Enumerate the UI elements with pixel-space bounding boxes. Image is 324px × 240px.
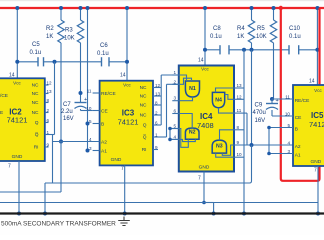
capacitor C6 (101, 57, 103, 66)
svg-text:+: + (276, 98, 279, 104)
wire decoupling line left (17, 61, 38, 63)
node rail junction B line (86, 6, 90, 10)
wire to IC3 A2 (53, 141, 100, 143)
svg-text:2: 2 (174, 79, 177, 84)
svg-text:/CE: /CE (0, 93, 8, 99)
node IC2 Vcc tap (15, 60, 19, 64)
node black bus IC5 (316, 212, 320, 216)
svg-text:1K: 1K (237, 34, 244, 40)
svg-text:11: 11 (237, 108, 242, 113)
wire Qbar tap down to IC2 pin1 (54, 62, 56, 135)
op-amp IC3 74121 monostable (86, 73, 166, 173)
node black bus jog (212, 212, 216, 216)
svg-text:7: 7 (198, 176, 201, 182)
node red branch rail junction (279, 6, 283, 10)
resistor R4 (248, 20, 254, 43)
svg-text:12: 12 (47, 80, 53, 85)
svg-text:74121: 74121 (7, 116, 28, 125)
svg-text:1K: 1K (46, 34, 53, 40)
svg-text:IC3: IC3 (122, 109, 135, 118)
wire C7 to IC3 pin10 (80, 109, 82, 111)
node R4 pin9 A2 junction (250, 143, 254, 147)
svg-text:B: B (295, 127, 298, 133)
svg-text:16V: 16V (63, 116, 74, 122)
svg-text:NC: NC (32, 83, 39, 89)
wire IC5 pin11 stub (272, 98, 293, 100)
svg-text:4: 4 (287, 140, 290, 145)
gate N1 (185, 81, 199, 97)
node IC3 B pin tap (86, 122, 90, 126)
ground bus (transformer secondary) (0, 212, 324, 214)
wire C9 to IC5 pin10 (271, 110, 273, 116)
svg-text:N2: N2 (189, 130, 196, 136)
svg-text:Q̅: Q̅ (35, 131, 39, 138)
svg-text:C5: C5 (32, 42, 40, 48)
svg-text:IC5: IC5 (311, 111, 324, 120)
wire lower horizontal bus (0, 202, 318, 204)
wire R4 to junction (251, 50, 253, 145)
ground symbol (118, 217, 130, 226)
svg-text:A1: A1 (101, 149, 107, 155)
svg-text:1: 1 (174, 70, 177, 75)
resistor R5 (270, 20, 276, 43)
wire C8 line left (205, 49, 220, 51)
svg-text:74121: 74121 (118, 118, 139, 127)
svg-text:6: 6 (47, 118, 50, 123)
svg-text:5: 5 (174, 124, 177, 129)
node R2 to IC3 A2 junction (59, 140, 63, 144)
svg-text:A1: A1 (295, 153, 301, 159)
svg-text:RI: RI (142, 147, 147, 153)
gate N4 (212, 92, 224, 107)
wire IC5 GND drop (317, 166, 319, 214)
wire left return bus (0, 191, 61, 193)
svg-text:Q̅: Q̅ (143, 134, 147, 141)
svg-text:3: 3 (174, 96, 177, 101)
svg-text:Q: Q (143, 123, 147, 129)
svg-text:9: 9 (237, 140, 240, 145)
capacitor C7 2.2u electrolytic (75, 102, 87, 104)
svg-text:12: 12 (155, 83, 161, 88)
svg-text:Q: Q (35, 120, 39, 126)
svg-text:+: + (84, 97, 87, 103)
wire IC4 pin9 to IC5 A2 (234, 144, 293, 146)
wire IC2 Vcc feed (16, 8, 18, 78)
svg-text:7: 7 (121, 166, 124, 172)
svg-text:R4: R4 (237, 26, 245, 32)
svg-text:NC: NC (140, 103, 147, 109)
node IC2 Vcc rail junction (15, 6, 19, 10)
wire red Vcc branch (281, 8, 320, 181)
svg-text:16V: 16V (255, 118, 266, 124)
svg-text:R3: R3 (65, 28, 73, 34)
node C10 IC5 Vcc tap (315, 48, 319, 52)
op-amp IC4 7408 quad AND (172, 58, 251, 182)
svg-text:0.1u: 0.1u (30, 50, 42, 56)
wire IC5 Vcc feed (316, 8, 318, 85)
svg-text:CE: CE (101, 109, 108, 115)
wire N4 out to junction (246, 113, 248, 145)
svg-text:14: 14 (309, 79, 315, 85)
node R5 C9 pin11 junction (270, 97, 274, 101)
svg-text:N1: N1 (189, 86, 196, 92)
svg-text:0.1u: 0.1u (210, 34, 222, 40)
svg-text:470u: 470u (253, 110, 266, 116)
svg-text:4: 4 (174, 134, 177, 139)
resistor R2 (58, 20, 64, 43)
svg-text:C9: C9 (255, 103, 263, 109)
wire C8 to C10 (229, 49, 289, 51)
gate N2 (185, 128, 199, 139)
wire IC3 Vcc feed (126, 8, 128, 81)
node R4 tap (250, 48, 254, 52)
svg-text:RE/CE: RE/CE (295, 98, 310, 104)
resistor R3 (77, 20, 83, 43)
svg-text:13: 13 (237, 83, 243, 88)
node IC4 Vcc tap (203, 48, 207, 52)
svg-text:13: 13 (47, 89, 53, 94)
wire IC4 NC tie to ground (243, 50, 245, 214)
gate N3 (212, 140, 226, 153)
node black bus riser (43, 212, 47, 216)
svg-text:R5: R5 (257, 26, 265, 32)
wire IC4 GND drop (203, 172, 205, 203)
svg-text:2: 2 (155, 110, 158, 115)
wire IC2 GND drop (18, 161, 20, 214)
wire C10 to IC5 Vcc feed (299, 49, 318, 51)
svg-text:CE: CE (295, 115, 302, 121)
svg-text:10: 10 (237, 152, 243, 157)
node IC4 GND to bus (202, 201, 206, 205)
svg-text:10K: 10K (64, 36, 75, 42)
wire junction down to return line (251, 145, 253, 181)
svg-text:C10: C10 (289, 26, 301, 32)
svg-text:8: 8 (155, 100, 158, 105)
svg-text:GND: GND (12, 154, 23, 160)
svg-text:1: 1 (155, 132, 158, 137)
wire C5 to C6 (44, 61, 102, 63)
svg-text:10K: 10K (256, 34, 267, 40)
node R4 rail junction (250, 6, 254, 10)
svg-text:B: B (101, 122, 104, 128)
svg-text:7: 7 (8, 164, 11, 170)
node R3 C7 pin11 junction (79, 91, 83, 95)
node IC5 B tie (267, 126, 271, 130)
op-amp IC5 74121 monostable (269, 79, 324, 174)
svg-text:N3: N3 (216, 144, 223, 150)
svg-text:Vcc: Vcc (13, 80, 21, 85)
svg-text:RE/CE: RE/CE (101, 91, 116, 97)
wire IC4 Vcc feed (204, 8, 206, 66)
wire IC3 pin11 to C7 (80, 93, 82, 102)
svg-text:A2: A2 (295, 144, 301, 150)
svg-text:NC: NC (140, 113, 147, 119)
svg-text:7: 7 (314, 168, 317, 174)
wire IC4 GND jog (204, 202, 214, 204)
svg-text:5: 5 (287, 123, 290, 128)
svg-text:RI: RI (34, 145, 39, 151)
node IC3 A1 pin tap (86, 149, 90, 153)
node C6 IC3 Vcc tap (125, 60, 129, 64)
svg-text:GND: GND (311, 159, 322, 165)
svg-text:9: 9 (155, 145, 158, 150)
wire IC3 Qbar to IC4 pin2 (166, 84, 168, 137)
svg-text:2: 2 (47, 108, 50, 113)
svg-text:3: 3 (287, 149, 290, 154)
node R2 rail junction (59, 6, 63, 10)
svg-text:9: 9 (47, 142, 50, 147)
node IC5 A1 tie (267, 152, 271, 156)
node C5 line junction (53, 60, 57, 64)
svg-text:NC: NC (140, 94, 147, 100)
svg-text:GND: GND (199, 165, 210, 171)
capacitor C10 (288, 45, 290, 54)
capacitor C8 (219, 45, 221, 54)
svg-text:500mA SECONDARY TRANSFORMER: 500mA SECONDARY TRANSFORMER (1, 221, 116, 228)
node R3 rail junction (79, 6, 83, 10)
Vcc power rail (red, top) (0, 7, 324, 9)
svg-text:NC: NC (140, 85, 147, 91)
wire IC5 B A1 tie (268, 128, 270, 154)
svg-text:E: E (0, 110, 3, 116)
wire C6 to IC3 Vcc feed (109, 61, 127, 63)
op-amp IC2 74121 monostable (0, 73, 55, 170)
svg-text:0.1u: 0.1u (97, 51, 109, 57)
svg-text:R2: R2 (46, 26, 54, 32)
wire left ground riser (44, 183, 46, 214)
wire IC3 Q to IC4 pin1 tie (160, 75, 162, 125)
svg-text:NC: NC (32, 100, 39, 106)
wire IC2 Qbar jog down (52, 135, 54, 184)
svg-text:6: 6 (174, 109, 177, 114)
svg-text:14: 14 (198, 58, 204, 64)
svg-text:IC4: IC4 (200, 112, 213, 121)
node IC3 Vcc rail junction (125, 6, 129, 10)
wire IC4 pin4 pin5 tie (169, 129, 171, 140)
node IC4 Vcc rail junction (203, 6, 207, 10)
svg-text:14: 14 (120, 73, 126, 79)
svg-text:13: 13 (155, 91, 161, 96)
svg-text:N4: N4 (215, 97, 222, 103)
node NC-tie tap (242, 48, 246, 52)
svg-text:NC: NC (32, 91, 39, 97)
svg-text:NC: NC (32, 110, 39, 116)
svg-text:8: 8 (47, 98, 50, 103)
svg-text:11: 11 (87, 89, 92, 94)
svg-text:Vcc: Vcc (123, 83, 131, 88)
node IC4 pin5 tie (168, 138, 172, 142)
svg-text:0.1u: 0.1u (289, 34, 301, 40)
capacitor C5 (37, 57, 39, 66)
svg-text:2.2u: 2.2u (61, 109, 73, 115)
wire B-input line from rail (87, 8, 89, 151)
svg-text:C8: C8 (213, 26, 221, 32)
svg-text:1: 1 (47, 130, 50, 135)
node R5 rail junction (272, 6, 276, 10)
node black bus NC tie (242, 212, 246, 216)
node IC4 pin4 tie (168, 127, 172, 131)
node black bus IC3 (123, 212, 127, 216)
node black bus IC2 (17, 212, 21, 216)
svg-text:Vcc: Vcc (201, 67, 209, 72)
svg-text:7408: 7408 (197, 121, 214, 130)
node IC5 Vcc rail junction (315, 6, 319, 10)
svg-text:Vcc: Vcc (314, 88, 322, 93)
svg-text:12: 12 (237, 94, 243, 99)
svg-text:A2: A2 (101, 140, 107, 146)
svg-text:8: 8 (237, 125, 240, 130)
svg-text:C7: C7 (63, 102, 71, 108)
svg-text:C6: C6 (100, 43, 108, 49)
svg-text:6: 6 (155, 120, 158, 125)
svg-text:GND: GND (111, 157, 122, 163)
svg-text:7412: 7412 (309, 120, 324, 129)
wire IC3 GND drop (124, 165, 126, 213)
svg-text:14: 14 (9, 73, 15, 79)
capacitor C9 470u electrolytic (266, 103, 278, 105)
